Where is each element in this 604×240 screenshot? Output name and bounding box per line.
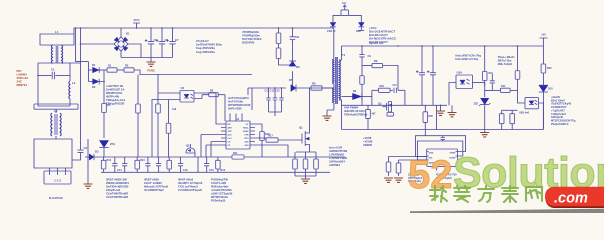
ground [451, 105, 453, 112]
svg-text:U3B 4n0: U3B 4n0 [519, 112, 530, 115]
sync FET Q3 [386, 102, 388, 113]
opto U3A [456, 75, 473, 89]
primary gnd bus [85, 156, 345, 158]
clamp diode D6 [289, 61, 296, 66]
svg-text:RG4P: RG4P [243, 130, 249, 133]
svg-text:T/DHAq4/CP/BFq0: T/DHAq4/CP/BFq0 [344, 112, 368, 116]
snubber resistor R4 [278, 44, 280, 49]
capacitor C15 [124, 157, 126, 172]
wire [87, 139, 89, 184]
gate loop with resistor R9b and cap C11 [372, 89, 405, 91]
svg-text:VB08/5: VB08/5 [363, 143, 372, 147]
VCC symbol [133, 23, 140, 28]
svg-text:R30: R30 [429, 115, 434, 118]
capacitor C3 [78, 150, 84, 152]
capacitor C17 [158, 157, 160, 172]
wire [383, 66, 399, 91]
resistor R22 [517, 46, 519, 66]
svg-text:R12: R12 [107, 159, 112, 162]
VCC diode row [332, 27, 334, 28]
resistor R7 [341, 10, 348, 16]
svg-text:R10: R10 [489, 72, 494, 75]
svg-text:+VC08: +VC08 [363, 136, 372, 140]
rail [134, 70, 252, 75]
wire [194, 92, 216, 94]
svg-text:D3: D3 [95, 150, 99, 154]
ground [323, 116, 332, 120]
wire [473, 82, 485, 84]
bulk capacitor C7 [172, 28, 174, 58]
resistor R14 [168, 157, 170, 172]
svg-text:R15: R15 [221, 169, 226, 172]
svg-text:R9: R9 [374, 59, 378, 63]
ground [394, 178, 403, 182]
output cap C13o [432, 46, 434, 68]
resistor R8 [194, 95, 209, 99]
svg-text:Unit:uF/B7+C17kq: Unit:uF/B7+C17kq [455, 57, 479, 61]
svg-text:4.R0/W4: 4.R0/W4 [329, 163, 340, 167]
inductor L2 [69, 81, 70, 99]
loop cap C21 [442, 136, 444, 137]
svg-text:R-CAP/AC: R-CAP/AC [49, 196, 64, 200]
svg-text:2.C2/4RA/XT3qn/0: 2.C2/4RA/XT3qn/0 [178, 188, 202, 192]
svg-text:L1: L1 [55, 30, 59, 34]
watermark red box .com [546, 188, 604, 209]
wire [333, 28, 335, 59]
svg-text:D1: D1 [92, 63, 96, 67]
svg-text:VCC: VCC [133, 18, 140, 22]
wire [251, 88, 253, 110]
output rail [342, 45, 544, 47]
watermark chinese chars [430, 186, 447, 202]
resistor R26 [389, 157, 427, 159]
transformer T1 secondary winding [339, 60, 340, 100]
svg-text:PsO: PsO [228, 138, 232, 140]
svg-text:.com: .com [554, 191, 588, 207]
resistor R27 [399, 159, 427, 161]
resistor R2 [124, 68, 134, 72]
resistor R6 [248, 87, 286, 89]
wires into IC top [230, 114, 242, 122]
resistor R16 [255, 124, 262, 129]
svg-text:Q2: Q2 [186, 144, 190, 148]
bottom shadow strip [410, 209, 604, 213]
resistor R15 [217, 157, 219, 172]
capacitor C2 bar [34, 104, 78, 109]
wire [152, 100, 180, 158]
power symbol +5V [540, 38, 548, 46]
ground under bus [484, 130, 486, 133]
wire [157, 118, 159, 157]
capacitor C14 [114, 157, 116, 172]
capacitor C18 [180, 157, 182, 172]
svg-text:GN0: GN0 [356, 31, 361, 33]
svg-text:4u/T4 PG/GqPG0: 4u/T4 PG/GqPG0 [228, 96, 249, 100]
wire [74, 28, 121, 34]
svg-text:C14: C14 [117, 169, 122, 172]
svg-text:R2: R2 [125, 64, 129, 68]
svg-text:C2x/T4W/TDvW2: C2x/T4W/TDvW2 [106, 195, 129, 199]
svg-text:U3A: U3A [457, 71, 463, 75]
snubber resistor R3 [278, 28, 280, 33]
svg-text:B0/7u7 Bw: B0/7u7 Bw [498, 58, 513, 62]
wire [197, 157, 199, 172]
capacitor C16 [147, 157, 149, 172]
resistor R4a [157, 75, 159, 100]
wire secondary top [339, 46, 341, 60]
svg-text:4u/T4 PG/8n: 4u/T4 PG/8n [228, 100, 243, 104]
bus 2 [101, 171, 330, 173]
X-cap loop [38, 63, 81, 106]
svg-text:U2: U2 [181, 86, 185, 90]
svg-text:D6: D6 [296, 65, 300, 69]
svg-text:D5: D5 [289, 78, 293, 82]
svg-text:+5V: +5V [541, 33, 546, 37]
svg-text:R25: R25 [547, 67, 552, 70]
secondary gnd bus [342, 129, 544, 131]
wire [539, 103, 544, 130]
svg-text:CPR: CPR [244, 135, 249, 137]
output cap C12o [421, 46, 423, 68]
ground [440, 105, 442, 111]
resistor R33 [168, 100, 170, 158]
svg-text:C9: C9 [368, 54, 372, 58]
svg-text:4Cx/RW/XT3q0: 4Cx/RW/XT3q0 [144, 188, 164, 192]
svg-text:ZD2: ZD2 [473, 103, 478, 106]
wire [128, 44, 141, 58]
svg-text:PGND: PGND [147, 70, 154, 73]
wire [80, 28, 82, 150]
wire [295, 176, 316, 179]
small box under Q3 [387, 113, 394, 117]
svg-text:D10: D10 [548, 88, 553, 91]
svg-text:ZD1: ZD1 [110, 142, 116, 146]
svg-text:+VC0/B: +VC0/B [363, 139, 373, 143]
svg-text:3KP0+/D30: 3KP0+/D30 [228, 107, 242, 111]
diode D3 [89, 154, 94, 160]
divider resistor R24 [511, 110, 513, 127]
MOSFET Q1 [302, 131, 305, 146]
snubber cap C9 [361, 46, 363, 52]
gate resistor R17 [255, 138, 266, 140]
wire [137, 118, 139, 157]
svg-text:P3q4u7/B0C4r: P3q4u7/B0C4r [551, 122, 569, 126]
transistor Q2 [186, 148, 195, 153]
wire [55, 109, 57, 139]
svg-text:1u8: 1u8 [172, 108, 177, 111]
svg-text:C7: C7 [175, 38, 179, 42]
svg-text:top-bus 1un: top-bus 1un [369, 42, 384, 45]
resistor R10 [484, 46, 486, 66]
svg-text:R31: R31 [233, 153, 238, 155]
cap return rail [121, 57, 173, 59]
wire [88, 62, 90, 82]
svg-text:RG4L: RG4L [243, 127, 249, 130]
svg-text:R17: R17 [268, 134, 273, 138]
zener ZD1 [99, 141, 108, 148]
svg-text:BW+7uKq0: BW+7uKq0 [498, 62, 513, 66]
resistor R5 chain [103, 82, 105, 100]
power mark [343, 5, 346, 10]
capacitor C19 [206, 157, 208, 172]
resistor R21 [361, 72, 363, 88]
svg-text:7Kqn+ B0u7v: 7Kqn+ B0u7v [498, 55, 516, 59]
choke L3 [51, 113, 52, 136]
wire [341, 105, 343, 129]
ground [84, 184, 93, 188]
svg-text:M58724: M58724 [17, 83, 28, 87]
zener D10 [539, 85, 548, 92]
wire [436, 105, 438, 129]
zener ZD2 [484, 90, 486, 97]
svg-text:ACC: ACC [228, 134, 233, 137]
svg-text:C11 C12 C13: C11 C12 C13 [265, 90, 281, 93]
wire [120, 28, 122, 37]
svg-text:R1: R1 [108, 64, 112, 68]
transformer T1 primary winding [333, 59, 334, 84]
svg-text:D2: D2 [92, 85, 96, 89]
svg-text:R11: R11 [501, 85, 506, 88]
resistor R29 [424, 105, 426, 112]
diode D1 [89, 69, 93, 71]
svg-text:B1: B1 [126, 32, 130, 36]
sense resistor R20 [315, 152, 317, 176]
bulk capacitor C5 [150, 28, 152, 58]
transformer T1 aux winding [333, 88, 334, 103]
divider resistor R23 [502, 109, 513, 111]
svg-text:T1: T1 [342, 53, 346, 57]
diode D2 [89, 81, 93, 83]
wire [103, 147, 105, 157]
feedback loop inner [417, 141, 462, 160]
wire IC pin1 to opto [216, 93, 221, 124]
wire [81, 43, 115, 45]
svg-text:C11: C11 [393, 84, 398, 87]
svg-text:C18: C18 [183, 169, 188, 172]
bridge rectifier B1 [114, 37, 128, 51]
main HV rail [121, 27, 334, 29]
svg-text:AVR: AVR [228, 127, 233, 130]
wire source to sense [296, 151, 316, 153]
series resistor under IC [232, 155, 244, 159]
svg-text:D0Z/4F/N: D0Z/4F/N [242, 41, 254, 45]
wire [327, 103, 334, 116]
svg-text:R6: R6 [312, 81, 316, 85]
common-mode choke L1 [51, 45, 52, 63]
opto U2 [180, 91, 194, 103]
IC U1 PWM controller [226, 121, 250, 149]
svg-text:C19: C19 [209, 169, 214, 172]
rectifier diode D9 [342, 96, 353, 98]
wire [436, 166, 438, 170]
svg-text:R13: R13 [140, 159, 145, 162]
svg-text:C8: C8 [296, 35, 300, 39]
wire secondary bottom [339, 100, 341, 106]
wire [255, 145, 288, 157]
connector J1 [44, 171, 71, 184]
loop box 2 [34, 139, 72, 168]
wire [120, 51, 122, 58]
sense resistor R19 [305, 152, 307, 176]
regulator U6 box [427, 149, 458, 166]
svg-text:OPP: OPP [228, 131, 233, 133]
wire [158, 92, 180, 94]
aux feed diode D5 [291, 85, 296, 92]
wire [103, 117, 105, 138]
transformer T1 core [336, 57, 337, 104]
resistor R3a [137, 75, 139, 100]
resistor R13 [136, 157, 138, 172]
svg-text:1 2 3: 1 2 3 [54, 179, 61, 183]
snubber cap C8 [292, 28, 294, 37]
svg-text:Q1: Q1 [299, 126, 303, 130]
wire [449, 83, 456, 106]
svg-text:Cap:400V/20u: Cap:400V/20u [196, 50, 215, 54]
resistor R11 [485, 83, 493, 91]
svg-text:U1: U1 [236, 117, 240, 121]
capacitor C20 [491, 74, 493, 81]
wire [361, 88, 363, 105]
ground [384, 178, 393, 182]
ground [301, 179, 310, 183]
resistor R9 [362, 65, 372, 67]
svg-text:W/TD/PN/RC3/C20: W/TD/PN/RC3/C20 [228, 103, 251, 107]
ground [150, 58, 152, 63]
bulk capacitor C6 [161, 28, 163, 58]
resistor R25 [542, 46, 544, 62]
resistor R28 [367, 105, 369, 109]
svg-text:C3: C3 [84, 146, 88, 150]
svg-text:OPO: OPO [244, 138, 249, 140]
wire IC pins down [201, 135, 221, 158]
svg-text:C1: C1 [51, 67, 55, 71]
wire [117, 69, 124, 71]
feedback loop outer [416, 136, 466, 157]
wire drain [310, 88, 334, 124]
svg-text:U4A PWM4: U4A PWM4 [344, 106, 359, 110]
svg-text:Unit:uF/B7+CR+/7kq: Unit:uF/B7+CR+/7kq [455, 54, 481, 58]
capacitor C1 [38, 75, 51, 77]
wire [76, 28, 89, 62]
input loop box top [40, 34, 74, 45]
sense resistor R18 [294, 152, 296, 176]
svg-text:T4HqpF/t/1DE: T4HqpF/t/1DE [106, 102, 124, 106]
svg-text:PU3n/4q30: PU3n/4q30 [211, 199, 226, 203]
svg-text:4k7: 4k7 [372, 113, 377, 116]
return bus [342, 104, 448, 106]
svg-text:Z402 40: Z402 40 [327, 30, 336, 33]
shunt U5 [518, 89, 526, 103]
svg-text:R64: R64 [380, 85, 385, 88]
svg-text:L2: L2 [72, 81, 76, 85]
wire [333, 84, 335, 88]
svg-text:4HC0PE 60.0.D3: 4HC0PE 60.0.D3 [344, 109, 365, 113]
resistor R1 [107, 68, 117, 72]
resistor R12 [103, 157, 105, 172]
diode D8 [348, 15, 361, 22]
